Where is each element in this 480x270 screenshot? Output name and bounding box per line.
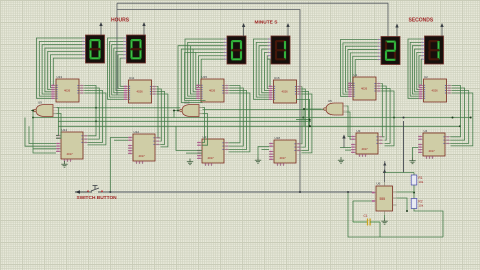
wire: minutes carry riser: [178, 46, 190, 111]
ground: [255, 157, 261, 163]
power terminal: [142, 22, 145, 35]
svg-text:U16: U16: [274, 76, 280, 80]
wire bus: display segments to counter: [408, 39, 421, 98]
ground: [61, 161, 67, 167]
wire: 555 bottom pin: [384, 215, 386, 218]
power terminal: [395, 24, 398, 37]
arrow annotation: [75, 190, 88, 194]
wire bus: U13 feedback: [85, 86, 97, 136]
NAND gate U10 (mirrored): [177, 100, 203, 116]
svg-text:U4: U4: [424, 129, 428, 133]
svg-text:4026: 4026: [64, 88, 71, 92]
7-segment display D4 showing 1: [268, 36, 290, 64]
svg-text:U18: U18: [275, 136, 281, 140]
wire: long reset line: [33, 117, 471, 119]
svg-text:U2: U2: [424, 75, 428, 79]
IC U14 (4017 reset logic): [56, 128, 89, 162]
wire: 555 threshold: [397, 198, 408, 211]
svg-text:MINUTE S: MINUTE S: [255, 20, 279, 26]
wire: switch clock line to hours: [110, 138, 128, 193]
counter IC U13 (4026): [51, 75, 85, 102]
IC U12 (4017 reset logic): [128, 130, 161, 164]
wire: long reset line 3: [58, 120, 310, 122]
svg-text:U15: U15: [202, 75, 208, 79]
ground: [187, 159, 193, 165]
svg-text:U9: U9: [38, 100, 42, 104]
svg-text:HOURS: HOURS: [111, 17, 130, 23]
wire: carry line hours-minutes: [58, 107, 181, 109]
7-segment display D5 showing 2: [378, 37, 400, 65]
wire: H2b to ground: [258, 147, 269, 157]
svg-text:U13: U13: [57, 75, 63, 79]
wire: 555 pin left: [353, 200, 372, 202]
ground: [381, 218, 387, 224]
wire: H3a to 555: [403, 121, 405, 173]
wire: carry line minutes-seconds: [203, 109, 325, 111]
svg-text:U12: U12: [134, 130, 140, 134]
wire bus: U2 feedback: [451, 86, 461, 137]
wire: NAND GR output: [304, 109, 321, 126]
7-segment display D3 showing 0: [224, 36, 246, 64]
svg-text:4017: 4017: [67, 152, 74, 156]
counter IC U2 (4026): [419, 75, 453, 102]
wire bus: display segments to counter: [108, 38, 125, 99]
wire bus: U15 feedback: [229, 86, 241, 143]
wire: top power rail: [117, 3, 388, 36]
svg-text:C1: C1: [364, 214, 368, 218]
IC U4 (4017 reset logic): [418, 129, 451, 159]
wire: NAND GL output: [31, 111, 56, 154]
wire: R1 to R2: [413, 185, 415, 199]
counter IC U16 (4026): [269, 76, 303, 103]
7-segment display D2 showing 0: [123, 35, 145, 63]
power terminal: [99, 22, 102, 35]
wire: switch to 555 trigger line: [102, 191, 372, 193]
wire: clock line to 555: [117, 10, 300, 193]
wire bus: display segments to counter: [341, 40, 378, 97]
power terminal: [342, 135, 345, 148]
svg-text:4026: 4026: [361, 86, 368, 90]
svg-text:4017: 4017: [139, 154, 146, 158]
svg-text:U6: U6: [377, 181, 381, 185]
svg-text:4026: 4026: [432, 88, 439, 92]
wire: 555 discharge: [397, 191, 415, 193]
NAND gate U9 (mirrored): [31, 100, 57, 116]
svg-text:555: 555: [380, 197, 386, 201]
555 timer U6: [372, 181, 397, 215]
wire: long reset line 2: [58, 125, 460, 127]
IC U17 (4017 reset logic): [197, 135, 230, 166]
svg-text:U14: U14: [62, 128, 68, 132]
wire: seconds reset mesh: [296, 100, 310, 127]
wire: R2 bottom: [414, 209, 443, 238]
resistor R2: [411, 199, 424, 209]
wire: 555 VCC branch: [385, 172, 414, 174]
wire: H3a left pins: [340, 147, 351, 149]
wire: 555 ground rail: [348, 192, 443, 237]
wire bus: U1 feedback: [382, 84, 385, 137]
wire: H2a left pins: [176, 126, 202, 150]
svg-text:4017: 4017: [362, 147, 369, 151]
wire: NAND GM output: [174, 111, 177, 118]
svg-text:U3: U3: [357, 129, 361, 133]
svg-text:4017: 4017: [429, 149, 436, 153]
svg-text:U11: U11: [129, 76, 135, 80]
capacitor C1: [353, 214, 380, 226]
counter IC U1 (4026): [348, 73, 382, 100]
wire: NAND GM inputs: [202, 108, 205, 143]
wire: H1a left pins: [29, 126, 56, 143]
counter IC U15 (4026): [196, 75, 230, 102]
push button SW1: [87, 186, 103, 193]
wire: NAND GR inputs: [347, 106, 352, 137]
svg-text:4017: 4017: [280, 156, 287, 160]
power terminal: [286, 23, 289, 36]
counter IC U11 (4026): [124, 76, 158, 103]
wire bus: display segments to counter: [185, 39, 224, 98]
7-segment display D1 showing 0: [82, 35, 104, 63]
svg-text:4017: 4017: [208, 156, 215, 160]
wire: NAND GL inputs: [56, 108, 59, 136]
svg-text:4026: 4026: [282, 89, 289, 93]
ground: [338, 157, 344, 163]
7-segment display D6 showing 1: [421, 36, 443, 64]
power terminal below H3a: [383, 161, 386, 170]
IC U18 (4017 reset logic): [269, 136, 302, 166]
power terminal: [440, 23, 443, 36]
wire: H3b to ground: [413, 148, 419, 158]
wire: C1 to rail: [379, 222, 381, 237]
svg-text:SECONDS: SECONDS: [409, 17, 434, 23]
wire bus: U11 feedback: [157, 87, 161, 138]
NAND gate U5 (mirrored): [321, 99, 347, 115]
wire bus: display segments to counter: [254, 39, 270, 99]
svg-text:U1: U1: [354, 73, 358, 77]
resistor R1: [411, 175, 424, 185]
power terminal: [383, 169, 386, 182]
power terminal: [242, 23, 245, 36]
wire: clock rail vertical near HOURS: [116, 3, 118, 95]
svg-text:10k: 10k: [418, 180, 423, 184]
svg-text:10k: 10k: [418, 204, 423, 208]
wire bus: U16 feedback: [301, 87, 304, 144]
ground: [409, 158, 415, 164]
IC U3 (4017 reset logic): [351, 129, 384, 157]
svg-text:4026: 4026: [209, 88, 216, 92]
svg-text:4026: 4026: [137, 89, 144, 93]
svg-text:U5: U5: [328, 99, 332, 103]
wire bus: display segments to counter: [37, 38, 83, 98]
svg-text:SWITCH BUTTON: SWITCH BUTTON: [77, 195, 118, 201]
